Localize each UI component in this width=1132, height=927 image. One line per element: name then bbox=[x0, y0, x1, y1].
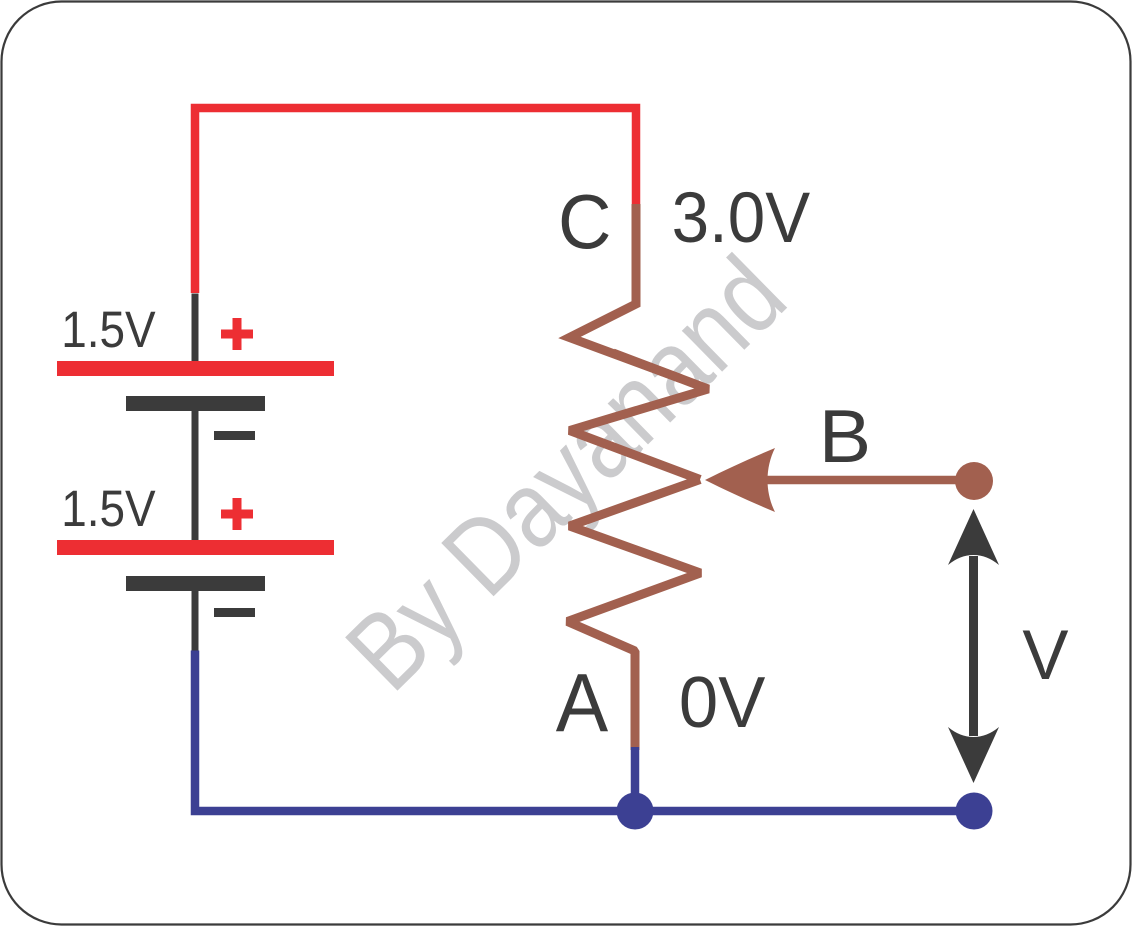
battery cell 2: negative plate (short black) bbox=[126, 576, 265, 591]
svg-text:3.0V: 3.0V bbox=[672, 177, 811, 257]
node B terminal dot bbox=[955, 462, 993, 500]
resistor R zigzag: middle part bbox=[570, 353, 709, 480]
wire: blue return wire from battery negative to node A and terminal dot bbox=[195, 651, 974, 812]
battery cell 2: plus marker bbox=[221, 498, 253, 530]
voltmeter arrowhead top bbox=[948, 509, 999, 565]
svg-text:B: B bbox=[819, 394, 871, 478]
wire: stem from cell 2 negative plate down bbox=[192, 590, 199, 652]
battery cell 1: plus marker bbox=[221, 318, 253, 350]
junction dot at node A bbox=[617, 793, 654, 830]
wire: red positive supply wire from battery + to potentiometer terminal C bbox=[195, 108, 636, 293]
voltmeter double arrow V: shaft bbox=[969, 556, 978, 736]
battery cell 2: minus marker bbox=[214, 608, 255, 617]
svg-text:V: V bbox=[1022, 615, 1068, 694]
potentiometer wiper arrowhead (terminal B) bbox=[705, 448, 775, 512]
wire: blue segment from resistor bottom to node A bbox=[631, 747, 640, 811]
resistor R (potentiometer track zigzag): upper part bbox=[570, 204, 682, 379]
svg-text:1.5V: 1.5V bbox=[61, 302, 156, 359]
battery cell 1: minus marker bbox=[214, 431, 255, 440]
wire: stem from red wire into cell 1 positive plate bbox=[192, 294, 199, 363]
svg-text:1.5V: 1.5V bbox=[61, 481, 156, 538]
wire: wiper arm from arrowhead to terminal B dot bbox=[763, 476, 960, 485]
wire: stem between cell 1 and cell 2 bbox=[192, 410, 199, 541]
voltmeter arrowhead bottom bbox=[948, 727, 999, 783]
svg-text:C: C bbox=[558, 180, 611, 266]
battery cell 2: positive plate (long red) bbox=[57, 540, 334, 555]
terminal dot bottom right bbox=[956, 793, 993, 830]
svg-text:0V: 0V bbox=[679, 662, 766, 743]
svg-text:A: A bbox=[556, 657, 609, 749]
resistor R zigzag: lower part bbox=[568, 480, 701, 751]
battery cell 1: positive plate (long red) bbox=[57, 361, 334, 376]
battery cell 1: negative plate (short black) bbox=[126, 396, 265, 411]
